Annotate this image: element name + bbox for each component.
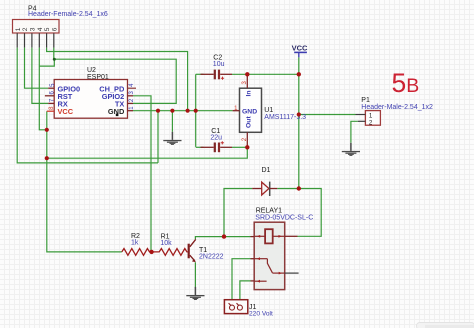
IC U2 ESP01 box — [54, 80, 127, 119]
wire P4 pin1 to GND line B — [17, 48, 158, 163]
wire VCC node to relay coil right — [298, 189, 322, 237]
U2 right pin stubs — [128, 96, 134, 111]
wire VCC vertical main — [298, 57, 300, 188]
resistor R2 — [122, 249, 152, 256]
svg-text:U1: U1 — [264, 107, 273, 114]
junction VCC/P1 — [297, 112, 301, 116]
wire D1 cathode to VCC line — [277, 188, 299, 190]
U1 pin1 stub — [233, 110, 240, 112]
wire C1 right to out junction — [232, 146, 247, 148]
relay coil leads with arrows — [254, 235, 285, 238]
wire ESP GPIO2 to R1/R2 node — [133, 96, 151, 252]
wire T1 collector to relay coil left — [195, 237, 250, 240]
P1 pin numbers — [369, 113, 373, 127]
svg-text:22u: 22u — [210, 134, 222, 141]
U2 pin numbers left 5,6,7,8 — [49, 83, 56, 110]
svg-text:SRD-05VDC-SL-C: SRD-05VDC-SL-C — [255, 214, 313, 221]
junction VCC/D1 — [297, 186, 301, 190]
junction C2/U1 in — [245, 72, 249, 76]
wire VCC to P1 pin1 — [299, 114, 356, 116]
svg-text:VCC: VCC — [292, 43, 308, 52]
svg-text:6: 6 — [51, 27, 58, 31]
svg-text:3: 3 — [30, 27, 37, 31]
svg-text:2N2222: 2N2222 — [199, 254, 224, 261]
svg-text:5: 5 — [44, 27, 51, 31]
ground symbol near P1 — [342, 143, 360, 156]
svg-text:Header-Female-2.54_1x6: Header-Female-2.54_1x6 — [28, 11, 108, 18]
U2 pin numbers right 4,3,2,1 — [129, 83, 135, 110]
relay coil rectangle — [265, 229, 273, 243]
svg-text:10u: 10u — [213, 61, 225, 68]
svg-text:GND: GND — [108, 107, 125, 116]
svg-text:2: 2 — [369, 119, 373, 126]
svg-text:1k: 1k — [131, 239, 139, 246]
wire P1 pin2 to ground — [351, 121, 358, 143]
junction GND row 4 — [194, 109, 198, 113]
P4 pin stubs — [17, 33, 54, 47]
wire TX line from pin6 corner to ESP TX — [54, 59, 176, 103]
wire line A out net — [47, 147, 248, 158]
wire C2 right to VCC node — [232, 73, 299, 75]
junction VCC top — [297, 72, 301, 76]
U2 pin1 marker dot — [116, 114, 119, 117]
U1 pin2 stub — [246, 132, 248, 147]
U2 pin names right — [99, 84, 125, 116]
UI panel fragment bottom-right — [417, 323, 474, 328]
relay switch lever — [267, 259, 272, 273]
U1 pin3 stub — [246, 74, 248, 88]
wire P4 pin6 stub down — [53, 48, 55, 60]
wire GND row down to line B — [157, 111, 159, 163]
svg-text:ESP01: ESP01 — [87, 74, 109, 81]
svg-text:220 Volt: 220 Volt — [249, 311, 273, 318]
relay NC contact — [254, 280, 266, 283]
U2 VCC pin stub — [47, 110, 54, 112]
wire P4 pin3 to ESP RX — [32, 48, 48, 104]
svg-text:Header-Male-2.54_1x2: Header-Male-2.54_1x2 — [361, 104, 433, 111]
relay outside pin stubs — [251, 236, 298, 281]
header-male P1 box — [365, 111, 380, 126]
junction GND row 1 — [156, 109, 160, 113]
wire T1 emitter to ground — [194, 262, 196, 287]
junction GND row 3 — [186, 109, 190, 113]
wire C1 left green corner — [196, 146, 204, 148]
wire P4 pin2 to ESP GPIO0 — [25, 48, 49, 89]
ground symbol at T1 emitter — [186, 287, 204, 300]
svg-text:VCC: VCC — [58, 107, 74, 116]
svg-text:Out: Out — [245, 116, 252, 128]
ground symbol near ESP — [163, 132, 181, 145]
wire GND row down to ground symbol — [171, 111, 173, 132]
transistor T1 2N2222 — [188, 239, 196, 262]
U2 CH_PD pin stub — [128, 87, 137, 89]
P4 pin numbers 1-6 — [15, 27, 59, 31]
relay common contact — [272, 272, 284, 275]
J1 screw terminal circles — [229, 303, 243, 310]
wire C2 left green corner — [196, 73, 204, 75]
wire P4 pin4 down joins VCC net — [39, 48, 47, 130]
svg-text:10k: 10k — [160, 240, 172, 247]
svg-text:GND: GND — [242, 108, 257, 115]
P1 pin stubs — [356, 115, 366, 122]
node VCC power symbol — [292, 43, 308, 57]
svg-text:D1: D1 — [262, 167, 271, 174]
capacitor C2 — [201, 70, 233, 80]
junction GND row 2 — [170, 109, 174, 113]
resistor R1 — [152, 249, 188, 256]
junction pin6/TX dark — [53, 58, 56, 61]
svg-text:4: 4 — [37, 27, 44, 31]
terminal J1 box — [224, 300, 247, 314]
svg-text:U2: U2 — [87, 67, 96, 74]
wire D1 anode from relay line — [224, 189, 252, 237]
wire jog pin4 to TX line — [39, 59, 54, 66]
junction 3.3V node A — [45, 156, 49, 160]
wire ESP GND row to U1 pin1 — [133, 110, 233, 112]
U2 pin names left — [58, 84, 81, 108]
diode D1 — [252, 182, 277, 196]
svg-text:In: In — [245, 90, 252, 96]
relay NO contact — [254, 257, 267, 260]
capacitor C1 — [201, 141, 233, 152]
junction pin4/VCC vertical — [45, 128, 49, 132]
wire J1 t1 to relay NO — [232, 259, 251, 305]
relay common unconnected stub — [285, 272, 299, 274]
wire ESP VCC down to 3.3V node and R2 — [47, 111, 122, 252]
junction C1/U1 out — [245, 145, 249, 149]
wire C2-GNDrow-C1 vertical — [195, 74, 197, 147]
junction R2/R1/GPIO2 — [149, 250, 153, 254]
svg-text:1: 1 — [15, 27, 22, 31]
header-female P4 box — [13, 20, 60, 34]
U2 left pin stubs — [45, 88, 54, 103]
svg-text:2: 2 — [22, 27, 29, 31]
wire J1 t2 to relay NC — [240, 281, 251, 305]
relay RELAY1 box — [254, 222, 285, 289]
junction D1/relay coil — [222, 234, 226, 238]
wire P4 pin5 to ESP GND row via right loop — [47, 48, 188, 111]
regulator U1 AMS1117 box — [240, 88, 262, 132]
